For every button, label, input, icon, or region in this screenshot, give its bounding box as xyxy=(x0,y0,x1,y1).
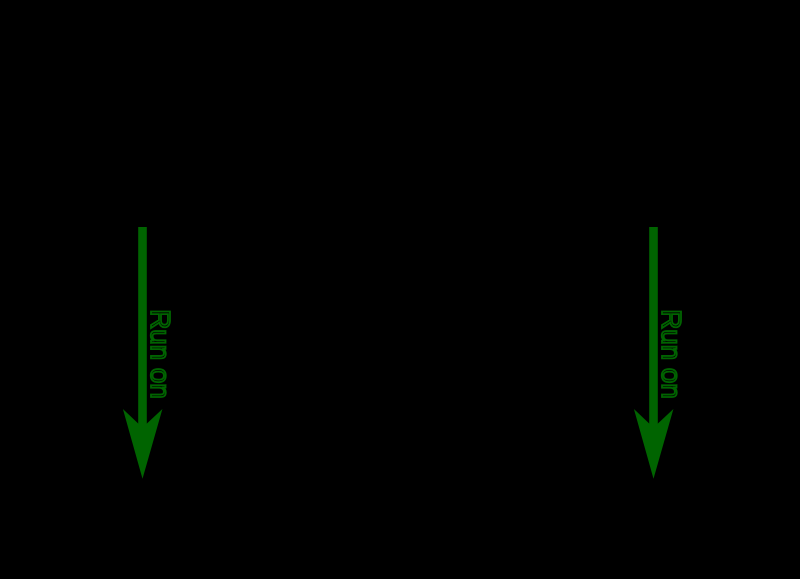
right arrowhead xyxy=(634,409,674,479)
left arrowhead xyxy=(123,409,162,479)
svg-text:Run on: Run on xyxy=(656,309,687,399)
svg-text:Run on: Run on xyxy=(145,309,176,399)
wire: right arrow shaft xyxy=(649,227,658,429)
label "Run on" (right) xyxy=(656,309,687,399)
wire: left arrow shaft xyxy=(138,227,147,429)
label "Run on" (left) xyxy=(145,309,176,399)
